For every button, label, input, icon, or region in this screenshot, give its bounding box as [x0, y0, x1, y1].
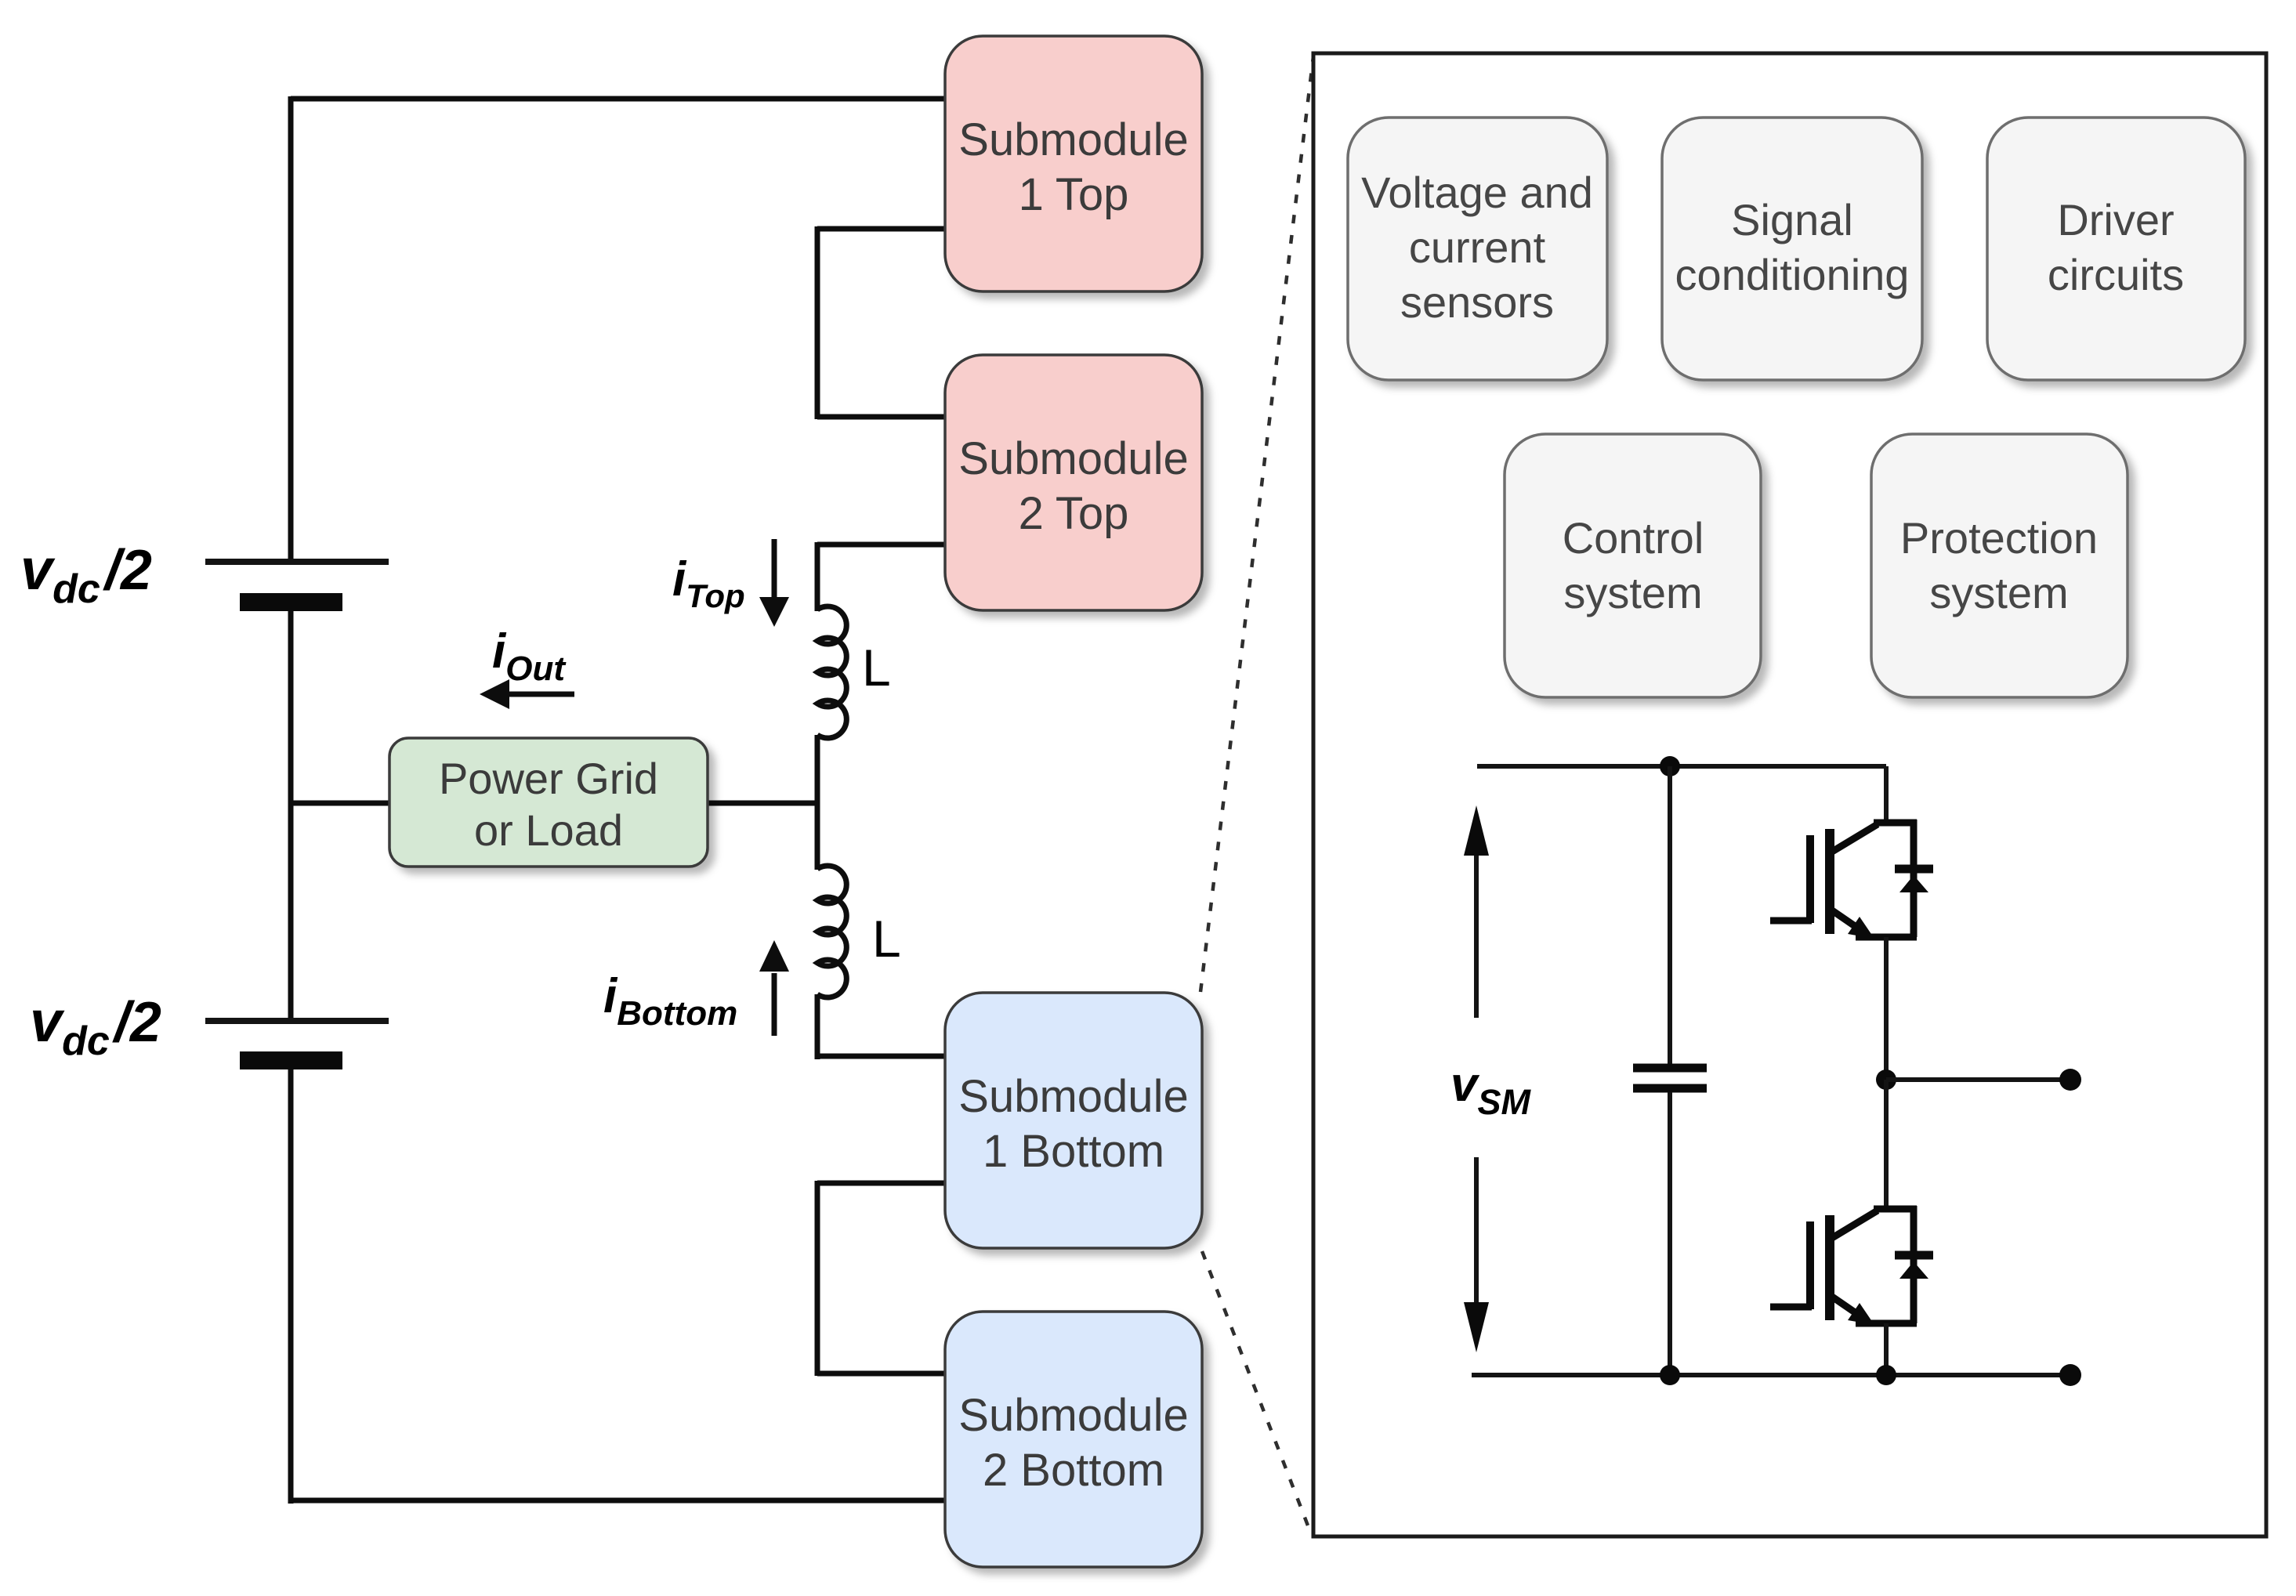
inductor L (top arm) [817, 606, 846, 738]
label vSM [1450, 1058, 1531, 1122]
svg-text:circuits: circuits [2048, 250, 2184, 299]
box: Voltage and current sensors [1348, 118, 1607, 380]
arrow iOut (left) [480, 679, 574, 709]
wire: arm vertical into top inductor [815, 542, 820, 611]
node: output junction [1876, 1069, 1896, 1090]
svg-text:Power Grid: Power Grid [439, 754, 658, 803]
svg-text:or Load: or Load [474, 805, 623, 855]
box: Submodule 2 Bottom [945, 1312, 1202, 1567]
wire: Q2 emitter to bottom rail [1884, 1323, 1889, 1375]
svg-text:1 Top: 1 Top [1019, 169, 1129, 220]
battery V1 (vdc/2 top): long thin plate [205, 559, 389, 565]
dashed zoom line (top): SM1 Bottom top-right to panel top-left [1201, 56, 1313, 992]
battery V2: short thick plate [240, 1051, 342, 1069]
svg-text:L: L [872, 910, 901, 968]
svg-text:Submodule: Submodule [958, 433, 1188, 484]
node: junction bottom rail / capacitor [1660, 1365, 1680, 1385]
svg-text:iTop: iTop [672, 552, 745, 614]
wire: left vertical bus between battery V1 and battery V2 [288, 611, 294, 1019]
svg-text:Voltage and: Voltage and [1361, 168, 1593, 217]
wire: output node to bottom IGBT collector [1884, 1080, 1889, 1211]
arrow iBottom (up) [759, 940, 789, 1036]
battery V2 (vdc/2 bottom): long thin plate [205, 1018, 389, 1024]
svg-text:2 Top: 2 Top [1019, 488, 1129, 539]
svg-text:Submodule: Submodule [958, 1071, 1188, 1122]
box: Submodule 1 Bottom [945, 993, 1202, 1248]
wire: stub Submodule 1 Top lower terminal [817, 226, 945, 232]
label vdc/2 (top) [20, 537, 152, 612]
svg-text:Control: Control [1563, 513, 1704, 563]
wire: mid horizontal from left bus to Power Grid box [291, 801, 389, 806]
wire: arm vertical below bottom inductor [815, 994, 820, 1059]
wire: Power Grid box to arm midpoint [706, 801, 820, 806]
box: Protection system [1871, 434, 2128, 697]
svg-text:vdc/2: vdc/2 [20, 537, 152, 612]
wire: capacitor lower lead [1668, 1092, 1672, 1375]
label iBottom [603, 969, 737, 1033]
wire: vertical connector SM1Top to SM2Top [815, 226, 820, 419]
svg-text:conditioning: conditioning [1675, 250, 1910, 299]
svg-text:current: current [1409, 223, 1546, 272]
label iTop [672, 552, 745, 614]
svg-text:iBottom: iBottom [603, 969, 737, 1033]
box: Signal conditioning [1662, 118, 1922, 380]
transistor Q1 (top IGBT with freewheel diode) [1770, 820, 1933, 939]
dashed zoom line (bottom): SM1 Bottom bottom-right to panel bottom-left [1202, 1251, 1312, 1536]
wire: stub Submodule 2 Bottom upper terminal [817, 1371, 945, 1377]
svg-text:2 Bottom: 2 Bottom [983, 1445, 1164, 1496]
arrow iTop (down) [759, 539, 789, 627]
wire: stub Submodule 1 Bottom upper terminal [815, 1054, 945, 1059]
wire: left vertical bus lower segment [288, 1069, 294, 1504]
wire: capacitor upper lead [1668, 766, 1672, 1064]
transistor Q2 (bottom IGBT with freewheel diode) [1770, 1206, 1933, 1325]
svg-text:system: system [1929, 568, 2068, 617]
wire: stub Submodule 2 Top lower terminal [817, 542, 945, 548]
wire: top IGBT collector lead [1884, 766, 1889, 824]
node: junction bottom rail / Q2 emitter [1876, 1365, 1896, 1385]
wire: bottom horizontal to Submodule 2 Bottom [288, 1498, 945, 1504]
wire: Q1 emitter to output node [1884, 937, 1889, 1080]
svg-text:Submodule: Submodule [958, 114, 1188, 165]
svg-text:Submodule: Submodule [958, 1390, 1188, 1441]
panel: submodule detail frame [1313, 53, 2266, 1536]
wire: left vertical bus upper segment [288, 96, 294, 559]
wire: vertical connector SM1Bottom to SM2Bottom [815, 1181, 820, 1376]
svg-text:iOut: iOut [492, 624, 567, 688]
box: Submodule 1 Top [945, 36, 1202, 291]
svg-text:sensors: sensors [1400, 277, 1554, 327]
svg-text:L: L [862, 639, 891, 697]
box: Power Grid or Load [389, 738, 708, 867]
capacitor C lower plate [1633, 1084, 1707, 1093]
box: Submodule 2 Top [945, 355, 1202, 610]
battery V1: short thick plate [240, 593, 342, 611]
svg-text:vdc/2: vdc/2 [30, 989, 161, 1064]
inductor L (bottom arm) [817, 866, 846, 997]
label L (bottom inductor) [872, 910, 901, 968]
label vdc/2 (bottom) [30, 989, 161, 1064]
box: Control system [1505, 434, 1761, 697]
wire: top horizontal from left bus to Submodule 1 Top [291, 96, 945, 102]
svg-text:Signal: Signal [1731, 195, 1853, 244]
node: junction top rail / capacitor [1660, 756, 1680, 776]
svg-text:Protection: Protection [1900, 513, 2098, 563]
svg-text:1 Bottom: 1 Bottom [983, 1126, 1164, 1177]
node: output terminal [2059, 1069, 2081, 1091]
wire: arm vertical between top inductor and midpoint [815, 735, 820, 870]
arrow vSM upper (up) [1464, 805, 1489, 1018]
wire: output lead [1886, 1077, 2070, 1082]
wire: submodule bottom rail [1472, 1373, 2070, 1377]
wire: stub Submodule 2 Top upper terminal [817, 414, 945, 420]
capacitor C (submodule) upper plate [1633, 1064, 1707, 1073]
box: Driver circuits [1987, 118, 2245, 380]
svg-text:Driver: Driver [2057, 195, 2174, 244]
node: bottom output terminal [2059, 1364, 2081, 1386]
arrow vSM lower (down) [1464, 1157, 1489, 1352]
label iOut [492, 624, 567, 688]
wire: stub Submodule 1 Bottom lower terminal [817, 1181, 945, 1186]
svg-text:system: system [1563, 568, 1702, 617]
wire: submodule top rail [1477, 764, 1886, 769]
label L (top inductor) [862, 639, 891, 697]
